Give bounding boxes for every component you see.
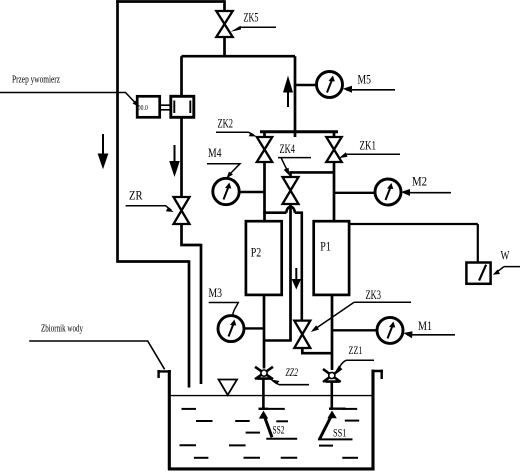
svg-text:M2: M2: [412, 175, 427, 189]
gauge M5: [317, 72, 343, 98]
wire ZK1 stem: [333, 132, 336, 138]
wire M1 connector: [332, 329, 377, 331]
svg-text:ZK4: ZK4: [280, 142, 296, 156]
flow arrow left down: [98, 134, 109, 169]
label M5: [343, 73, 395, 93]
svg-text:ZK1: ZK1: [360, 139, 377, 153]
gauge M4: [213, 178, 239, 204]
wire P2 outlet: [263, 295, 266, 369]
label ZK1: [339, 139, 400, 159]
wire upper header y=56: [182, 55, 296, 58]
valve ZZ2: [255, 367, 273, 379]
valve ZZ1: [323, 369, 341, 382]
meter W box: [466, 263, 490, 284]
wire ZK3 bottom to P1 line: [301, 348, 332, 353]
label M4: [207, 146, 240, 178]
flow arrow up M5: [283, 76, 293, 108]
wire ZR to tank: [180, 224, 201, 384]
label ZZ2: [270, 365, 309, 385]
wire ZK4 cross line: [289, 171, 334, 174]
wire left downcomer to tank: [116, 0, 189, 387]
flow arrow bypass down: [292, 268, 301, 290]
label ZR: [126, 189, 174, 213]
label ZK2: [216, 117, 257, 137]
pump P2: [246, 221, 282, 295]
svg-text:ZK3: ZK3: [366, 288, 382, 302]
wire manifold: [260, 132, 338, 137]
valve ZK5: [216, 11, 232, 37]
wire M4 connector: [239, 191, 264, 193]
gauge M1: [377, 317, 403, 343]
label M3: [209, 286, 239, 315]
gauge M2: [375, 179, 401, 205]
flowmeter display box: [137, 96, 160, 117]
water level symbol: [219, 380, 238, 396]
tank right lip: [372, 370, 384, 379]
svg-text:ZK2: ZK2: [218, 117, 234, 131]
svg-text:M3: M3: [209, 286, 223, 300]
svg-text:M4: M4: [208, 146, 222, 160]
wire W feed: [349, 224, 478, 262]
label M2: [401, 175, 451, 197]
wire ZK5 top stem: [223, 0, 226, 11]
tank left lip: [157, 370, 170, 378]
flow arrow mid down: [169, 145, 180, 177]
svg-text:Przep ywomierz: Przep ywomierz: [12, 74, 60, 86]
svg-text:SS1: SS1: [333, 428, 347, 440]
label ZZ1: [335, 343, 374, 372]
wire ZK5 bottom stem: [223, 37, 226, 56]
svg-text:P1: P1: [320, 239, 331, 254]
svg-text:M5: M5: [358, 73, 372, 87]
probe SS2: [259, 409, 298, 439]
wire drop to manifold: [294, 56, 297, 132]
label ZK3: [311, 288, 411, 332]
svg-text:Zbiornik wody: Zbiornik wody: [41, 323, 83, 335]
valve ZK1: [326, 137, 341, 162]
gauge M3: [218, 316, 244, 342]
pump P1: [314, 221, 349, 295]
label Przep ywomierz: [0, 74, 140, 108]
svg-text:W: W: [501, 249, 510, 263]
valve ZK3: [294, 321, 310, 348]
wire ZK2 stem: [263, 132, 266, 138]
label Zbiornik wody: [29, 323, 164, 370]
label M1: [403, 319, 455, 338]
label ZK4: [278, 142, 311, 176]
wire M3 connector: [244, 327, 264, 329]
wire ZZ2 to SS2: [262, 379, 265, 410]
wire P1 outlet: [331, 295, 334, 370]
svg-text:ZR: ZR: [129, 189, 143, 203]
probe SS1: [318, 409, 353, 440]
water line: [171, 395, 372, 397]
svg-text:00.0: 00.0: [138, 103, 148, 112]
svg-text:ZZ2: ZZ2: [286, 365, 299, 379]
valve ZR: [174, 197, 190, 224]
wire M5 connector: [295, 84, 317, 86]
svg-text:M1: M1: [418, 319, 432, 333]
wire ZK2 to P2: [263, 162, 266, 221]
wire flowmeter to ZR: [180, 117, 183, 197]
wire ZK1 to P1: [333, 162, 336, 221]
svg-text:SS2: SS2: [273, 425, 285, 437]
svg-text:P2: P2: [251, 245, 262, 260]
wire top header: [116, 0, 224, 3]
label ZK5: [231, 11, 277, 32]
valve ZK2: [257, 137, 272, 162]
water dashes: [180, 409, 360, 458]
wire bypass bottom to P2 line: [264, 339, 292, 342]
flowmeter body box: [171, 96, 194, 117]
tank shell: [168, 370, 375, 469]
wire bypass top with hop: [263, 207, 302, 321]
wire drop to flowmeter: [180, 56, 183, 95]
svg-text:ZZ1: ZZ1: [349, 343, 363, 357]
wire ZZ1 to SS1: [330, 381, 333, 410]
wire M2 connector: [334, 192, 375, 194]
wire ZK4 down: [289, 204, 292, 341]
svg-text:ZK5: ZK5: [244, 11, 259, 25]
label W: [493, 249, 520, 275]
valve ZK4: [283, 172, 299, 204]
flowmeter coupling: [160, 105, 170, 110]
